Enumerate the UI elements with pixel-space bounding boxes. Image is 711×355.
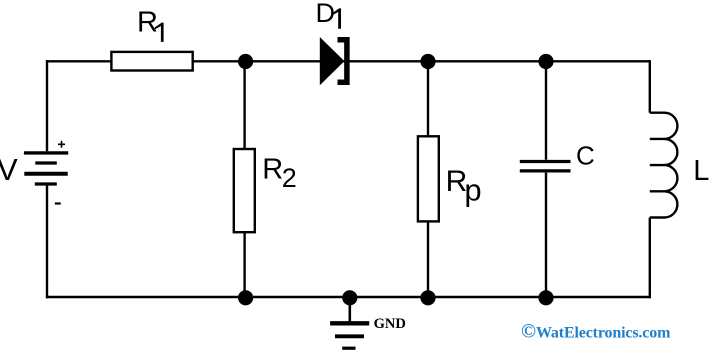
node dot top C bbox=[538, 54, 553, 69]
wire right rail upper bbox=[649, 60, 651, 113]
capacitor C bbox=[520, 162, 571, 171]
node dot bottom C bbox=[538, 290, 553, 305]
svg-text:C: C bbox=[576, 141, 595, 171]
wire C branch upper bbox=[545, 61, 547, 160]
svg-text:V: V bbox=[0, 152, 18, 187]
resistor Rp bbox=[418, 136, 439, 221]
svg-text:p: p bbox=[464, 172, 481, 207]
ground bbox=[330, 298, 369, 348]
node dot bottom GND bbox=[342, 290, 357, 305]
wire right rail lower bbox=[649, 218, 651, 299]
node dot top R2 bbox=[238, 54, 253, 69]
svg-text:D: D bbox=[316, 0, 336, 28]
node dot bottom R2 bbox=[238, 290, 253, 305]
battery V bbox=[24, 141, 68, 204]
svg-text:R: R bbox=[262, 154, 283, 186]
svg-text:2: 2 bbox=[282, 163, 297, 193]
svg-text:©WatElectronics.com: ©WatElectronics.com bbox=[521, 321, 671, 343]
svg-text:L: L bbox=[693, 155, 709, 187]
wire Rp branch bbox=[427, 61, 429, 297]
svg-text:GND: GND bbox=[374, 316, 406, 332]
wire R2 branch bbox=[243, 61, 245, 297]
diode D1 (tunnel diode) bbox=[320, 37, 347, 85]
wire C branch lower bbox=[545, 173, 547, 297]
wire top rail bbox=[46, 60, 650, 62]
inductor L bbox=[650, 113, 678, 218]
wire left rail lower bbox=[46, 185, 48, 298]
wire left rail upper bbox=[46, 60, 48, 151]
resistor R2 bbox=[234, 149, 255, 232]
node dot top Rp bbox=[420, 54, 435, 69]
svg-text:R: R bbox=[137, 6, 158, 38]
resistor R1 bbox=[111, 52, 192, 71]
wire bottom rail bbox=[46, 296, 650, 298]
node dot bottom Rp bbox=[420, 290, 435, 305]
